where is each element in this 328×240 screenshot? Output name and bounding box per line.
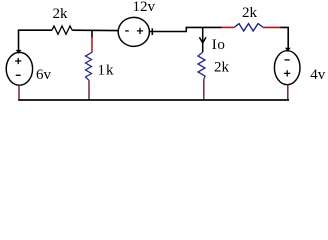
svg-text:Io: Io — [212, 37, 226, 53]
wire: left branch top (corner from 6v source up to top rail) — [19, 30, 53, 52]
wire: red segment from node B to R4 — [222, 26, 234, 28]
arrowhead at top terminal of V2 — [285, 48, 291, 52]
wire: maroon segment from V2 bottom to bottom rail — [287, 85, 289, 100]
wire: black corner down to 4v source — [281, 27, 289, 48]
resistor R4 2k (top-right, horizontal zigzag) — [234, 24, 263, 31]
svg-text:2k: 2k — [242, 5, 258, 21]
terminal tick at right of V1 — [151, 28, 153, 35]
svg-text:1k: 1k — [98, 62, 115, 78]
current arrow Io (arrowhead pointing down) — [199, 37, 206, 43]
polarity minus of V3 — [16, 74, 21, 76]
svg-text:4v: 4v — [310, 67, 326, 83]
svg-text:2k: 2k — [53, 6, 69, 22]
voltage source V3 6v (circle) — [6, 52, 32, 85]
wire: maroon segment from V3 bottom to bottom rail — [18, 85, 20, 100]
node B stub down (top of Io branch) — [202, 27, 204, 52]
node A junction stub (top of 1k branch) — [91, 30, 93, 37]
polarity minus of V1 — [125, 30, 129, 32]
wire: maroon segment from R3 down to bottom rail — [203, 79, 205, 100]
wire: top rail from R1 to 12v source, junction node at x=92 — [72, 29, 118, 31]
svg-text:2k: 2k — [214, 59, 230, 75]
polarity plus of V2 — [284, 70, 290, 76]
resistor R3 2k (vertical zigzag) — [198, 52, 205, 79]
voltage source V2 4v (circle) — [274, 51, 300, 85]
wire: red segment from R4 rightward — [263, 26, 281, 28]
resistor R2 1k (vertical zigzag) — [86, 52, 93, 80]
polarity plus of V1 — [137, 28, 143, 34]
svg-text:6v: 6v — [36, 67, 52, 83]
resistor R1 2k (top-left, horizontal zigzag) — [52, 26, 72, 34]
polarity plus of V3 — [15, 58, 21, 64]
wire: red segment of 1k branch — [91, 37, 93, 52]
arrowhead at top terminal of V3 — [16, 50, 22, 54]
svg-text:12v: 12v — [133, 0, 156, 15]
voltage source V1 12v (circle) — [118, 17, 149, 46]
wire: maroon segment from R2 down to bottom rail — [88, 80, 90, 100]
wire: bottom rail — [18, 99, 289, 101]
wire: from V1 right side with jog up, to node B — [149, 27, 221, 31]
polarity minus of V2 — [285, 59, 290, 61]
